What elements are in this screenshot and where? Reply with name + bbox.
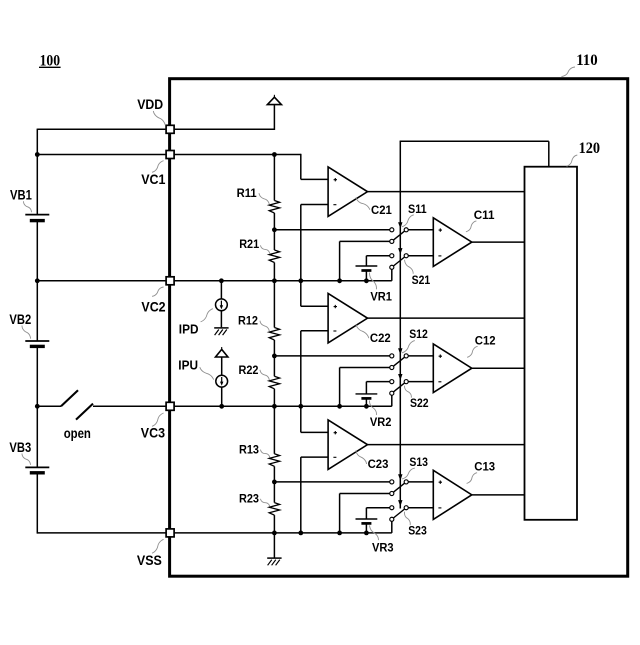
wire switch S13 lower throw to rail: [340, 493, 390, 495]
battery VB3: [25, 466, 49, 468]
wire resistor chain vertical: [273, 155, 275, 201]
op-amp C21 + mark: [334, 178, 337, 181]
svg-text:VC2: VC2: [141, 299, 165, 315]
switch S21: [390, 254, 394, 258]
supply arrow VDD: [273, 95, 275, 97]
control arrow 3: [398, 348, 402, 354]
leader VC3: [152, 413, 164, 426]
open switch: [61, 390, 78, 406]
svg-text:VB2: VB2: [9, 311, 31, 327]
op-amp C23 - mark: [333, 456, 336, 458]
svg-text:VC1: VC1: [141, 171, 165, 187]
svg-text:S22: S22: [410, 396, 429, 410]
leader VB1: [23, 201, 31, 212]
label 100 underline: [39, 66, 61, 68]
resistor R13: [269, 454, 279, 467]
svg-text:R21: R21: [239, 237, 259, 251]
svg-text:R11: R11: [237, 186, 257, 200]
svg-text:R13: R13: [239, 443, 259, 457]
wire VDD horizontal: [37, 128, 165, 130]
switch S12: [390, 354, 394, 358]
leader R21: [261, 245, 270, 253]
terminal VC3: [166, 402, 174, 410]
wire switch S21 upper throw to VR: [366, 255, 389, 257]
leader VR2: [370, 401, 377, 416]
svg-text:S23: S23: [408, 524, 427, 538]
wire switch S12 lower throw to rail: [340, 367, 390, 369]
svg-text:R12: R12: [238, 313, 258, 327]
battery VB1: [25, 214, 49, 216]
wire VR3 to rail: [365, 524, 367, 533]
node dot riser S12 at rail: [337, 404, 342, 409]
node dot riser at rail y=532.9: [298, 531, 303, 536]
leader C13: [467, 473, 478, 484]
svg-text:VB3: VB3: [9, 439, 31, 455]
comparator C11 + mark: [439, 228, 442, 231]
leader C23: [356, 451, 367, 465]
leader IPD: [201, 309, 213, 322]
wire switch S22 lower throw to rail: [391, 395, 393, 406]
leader R11: [259, 193, 269, 204]
switch S23: [390, 506, 394, 510]
wire op-amp C23 output: [368, 444, 525, 446]
node dot VB stack at VC3: [35, 404, 40, 409]
wire VR1 to rail: [365, 272, 367, 281]
terminal VDD: [166, 125, 174, 133]
terminal VSS: [166, 529, 174, 537]
node dot A3: [272, 480, 277, 485]
comparator C13: [433, 470, 472, 519]
svg-text:VR3: VR3: [372, 540, 394, 554]
ground below IPD: [214, 327, 228, 329]
terminal VC2: [166, 277, 174, 285]
wire VSS outside: [37, 532, 165, 534]
leader C12: [467, 346, 478, 357]
switch S13: [390, 480, 394, 484]
resistor R11: [269, 201, 279, 214]
wire VDD to supply arrow: [273, 105, 275, 130]
wire VC2 outside: [37, 280, 165, 282]
leader IPU: [200, 367, 214, 379]
op-amp C23: [328, 420, 367, 470]
current source IPU: [216, 375, 228, 387]
voltage source VR2: [356, 393, 378, 395]
resistor R21: [269, 250, 279, 263]
svg-text:VC3: VC3: [141, 425, 165, 441]
wire switch S22 upper throw to VR: [366, 381, 389, 383]
op-amp C23 + mark: [334, 431, 337, 434]
voltage source VR1: [356, 265, 378, 267]
op-amp C22 - mark: [333, 330, 336, 332]
wire VC1 inside: [174, 154, 301, 156]
leader R23: [261, 499, 270, 507]
wire buffer C21 - input to lower rail: [301, 204, 328, 206]
svg-text:C13: C13: [474, 460, 495, 474]
wire switch S21 pole to comparator: [408, 255, 433, 257]
node dot riser at rail y=406.3: [298, 404, 303, 409]
wire switch S23 upper throw to VR: [366, 507, 389, 509]
comparator C11: [433, 218, 472, 267]
comparator C12: [433, 344, 472, 393]
ground below resistor chain: [267, 557, 281, 559]
wire VC3 outside left of switch: [37, 405, 61, 407]
leader VSS: [152, 539, 164, 553]
leader C22: [356, 324, 369, 338]
leader R22: [260, 370, 269, 380]
leader 120: [567, 155, 578, 166]
wire ground stub below VSS: [273, 533, 275, 558]
svg-text:VDD: VDD: [137, 96, 163, 112]
leader R13: [261, 450, 270, 458]
node dot riser S11 at rail: [337, 278, 342, 283]
leader VB3: [22, 454, 31, 465]
node dot A1: [272, 227, 277, 232]
outer IC box 110: [170, 79, 628, 577]
svg-text:110: 110: [576, 52, 598, 69]
leader S11: [402, 215, 414, 227]
wire control bus top to box 120: [400, 140, 549, 142]
svg-text:S11: S11: [408, 202, 427, 216]
wire op-amp C21 output: [368, 191, 525, 193]
control arrow 2: [398, 248, 402, 254]
wire node A3 to switch S13: [274, 481, 389, 483]
node dot chain at VSS: [272, 531, 277, 536]
wire comparator C13 output: [472, 494, 525, 496]
leader C11: [466, 221, 477, 232]
leader S12: [402, 341, 415, 353]
leader VDD: [153, 111, 165, 125]
wire switch S13 pole to comparator: [408, 481, 433, 483]
wire IPD from VC2: [220, 281, 222, 299]
leader VR3: [370, 525, 379, 540]
leader S23: [404, 512, 410, 525]
control block box 120: [525, 167, 578, 520]
node dot riser S13 at rail: [337, 531, 342, 536]
op-amp C22 + mark: [334, 305, 337, 308]
resistor R23: [269, 503, 279, 515]
battery VB2: [25, 340, 49, 342]
leader R12: [260, 321, 269, 332]
current source IPD: [216, 299, 228, 311]
svg-text:C12: C12: [475, 334, 496, 348]
wire switch S22 pole to comparator: [408, 381, 433, 383]
leader VC1: [152, 161, 164, 173]
switch S11: [390, 228, 394, 232]
wire VC3 inside: [174, 405, 392, 407]
wire battery stack vertical segments: [36, 129, 38, 215]
svg-text:R23: R23: [239, 491, 259, 505]
svg-text:VB1: VB1: [10, 187, 32, 203]
svg-text:VSS: VSS: [137, 552, 162, 568]
node dot VR3 at rail: [364, 531, 369, 536]
svg-text:120: 120: [579, 140, 601, 157]
wire node A2 to switch S12: [274, 355, 389, 357]
svg-text:IPD: IPD: [179, 323, 199, 337]
leader C21: [356, 198, 370, 210]
wire IPU arrow to circle: [221, 357, 223, 375]
comparator C12 + mark: [439, 355, 442, 358]
node dot riser at rail y=280.8: [298, 278, 303, 283]
svg-text:R22: R22: [239, 363, 259, 377]
switch S22: [390, 380, 394, 384]
wire VSS inside: [174, 532, 392, 534]
svg-text:S13: S13: [409, 455, 428, 469]
leader VC2: [152, 287, 164, 296]
leader VR1: [370, 273, 377, 290]
op-amp C21 - mark: [333, 204, 336, 206]
svg-text:VR1: VR1: [370, 289, 392, 303]
wire comparator C12 output: [472, 367, 525, 369]
node dot chain at VC2: [272, 278, 277, 283]
svg-text:S12: S12: [409, 327, 428, 341]
wire buffer C21 + input from VC1: [300, 154, 302, 180]
leader 110: [562, 67, 576, 77]
svg-text:VR2: VR2: [370, 415, 392, 429]
wire op-amp C22 output: [368, 317, 525, 319]
leader S22: [405, 386, 412, 398]
comparator C11 - mark: [438, 255, 441, 257]
wire switch S11 lower throw to rail: [340, 240, 390, 242]
wire switch S23 lower throw to rail: [391, 522, 393, 533]
resistor R22: [269, 376, 279, 389]
svg-text:C22: C22: [370, 331, 391, 345]
control arrow 6: [398, 500, 402, 506]
svg-text:open: open: [64, 425, 91, 441]
wire comparator C11 output: [472, 241, 525, 243]
node dot IPU at VC3: [219, 404, 224, 409]
op-amp C22: [328, 293, 367, 343]
wire switch S21 lower throw to rail: [391, 270, 393, 281]
resistor R12: [269, 328, 279, 341]
wire VC3 between switch and terminal: [93, 405, 166, 407]
comparator C12 - mark: [438, 381, 441, 383]
svg-text:IPU: IPU: [178, 359, 198, 373]
node dot chain at VC3: [272, 404, 277, 409]
wire VDD inside box: [174, 128, 274, 130]
svg-text:S21: S21: [412, 273, 431, 287]
op-amp C21: [328, 167, 367, 217]
node dot chain at VC1: [272, 152, 277, 157]
node dot IPD at VC2: [219, 278, 224, 283]
node dot VR2 at rail: [364, 404, 369, 409]
control arrow 4: [398, 374, 402, 380]
comparator C13 - mark: [438, 507, 441, 509]
wire VC2 inside: [174, 280, 392, 282]
leader S13: [402, 468, 415, 479]
svg-text:C11: C11: [474, 208, 495, 222]
wire buffer C22 + input from VC2: [300, 281, 302, 307]
leader S21: [405, 260, 414, 274]
wire IPU to VC3: [221, 387, 223, 406]
leader VB2: [22, 326, 31, 339]
control arrow 5: [398, 474, 402, 480]
supply arrow IPU: [221, 347, 223, 349]
comparator C13 + mark: [439, 481, 442, 484]
wire control bus vertical: [399, 141, 401, 508]
wire buffer C22 - input to lower rail: [301, 330, 328, 332]
voltage source VR3: [356, 518, 378, 520]
svg-text:C23: C23: [368, 457, 389, 471]
node dot VR1 at rail: [364, 278, 369, 283]
terminal VC1: [166, 151, 174, 159]
svg-text:C21: C21: [371, 203, 392, 217]
wire IPD to ground: [220, 311, 222, 328]
node dot VB stack at VC1: [35, 152, 40, 157]
wire VC1 outside: [37, 154, 165, 156]
wire buffer C23 + input from VC3: [300, 406, 302, 432]
wire buffer C23 - input to lower rail: [301, 456, 328, 458]
wire node A1 to switch S11: [274, 229, 389, 231]
node dot A2: [272, 354, 277, 359]
wire VR2 to rail: [365, 399, 367, 406]
node dot VB stack at VC2: [35, 278, 40, 283]
wire switch S12 pole to comparator: [408, 355, 433, 357]
control arrow 1: [398, 222, 402, 228]
wire switch S23 pole to comparator: [408, 507, 433, 509]
wire switch S11 pole to comparator: [408, 229, 433, 231]
